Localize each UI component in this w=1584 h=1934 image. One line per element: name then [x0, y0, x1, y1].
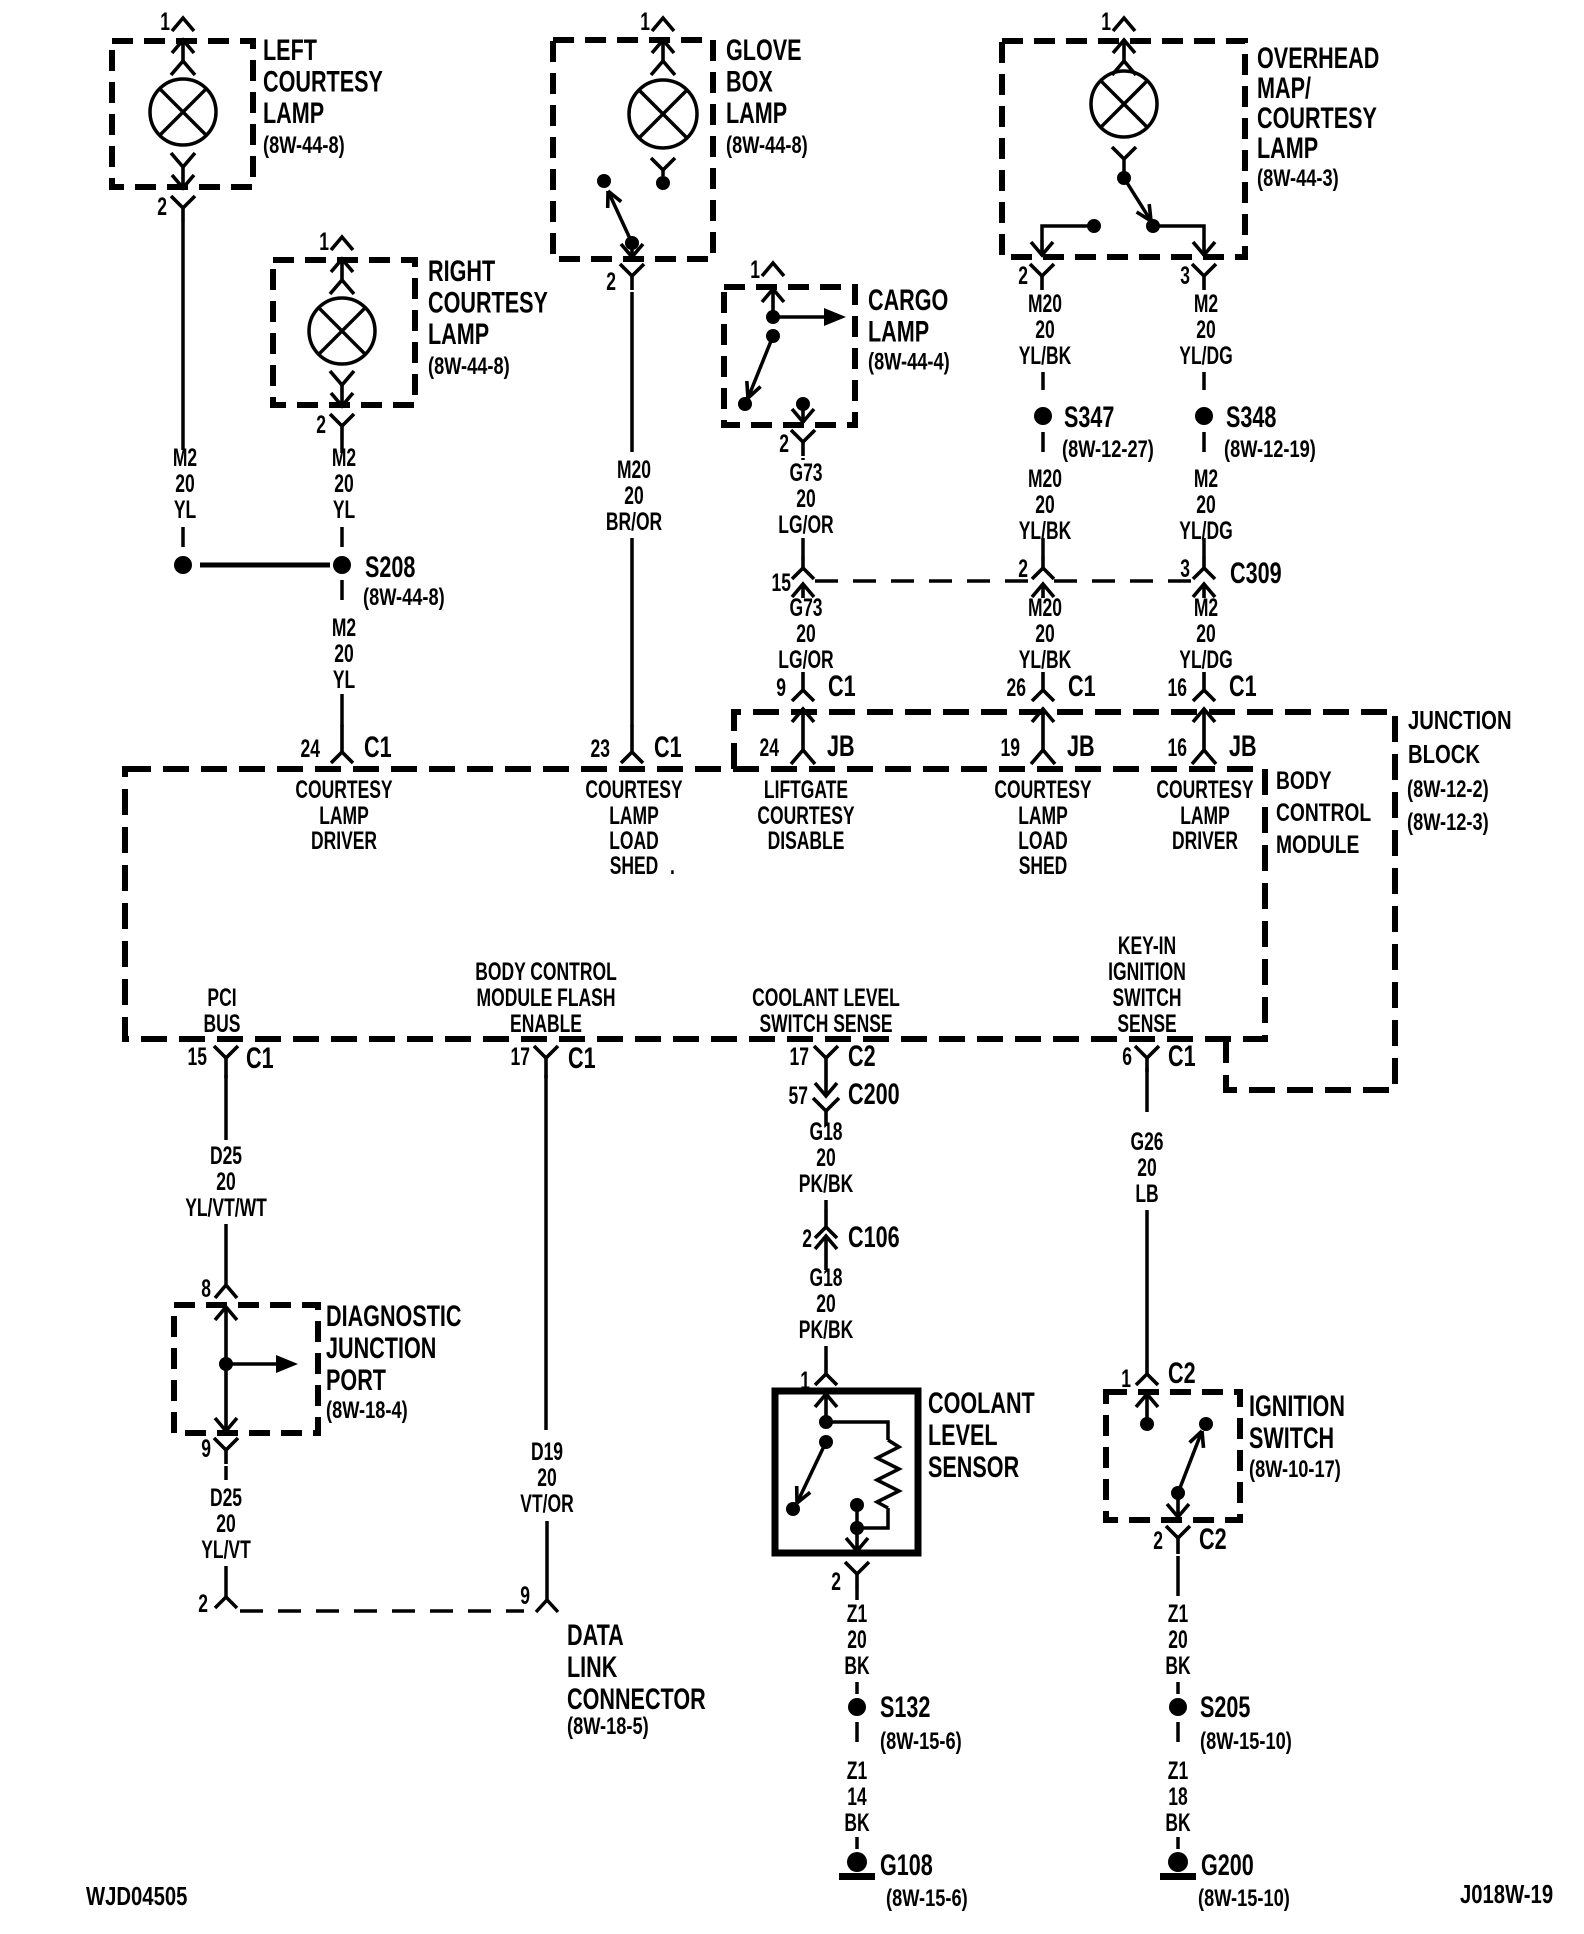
svg-text:2: 2: [198, 1589, 208, 1618]
wire M2 YL/DG below S348: [1202, 432, 1206, 452]
wire dash below S205: [1176, 1722, 1180, 1742]
drawing number J018W-19: [1460, 1880, 1553, 1909]
overhead switch contact pin3: [1146, 219, 1160, 233]
svg-text:COURTESY: COURTESY: [585, 775, 683, 804]
svg-text:PORT: PORT: [326, 1362, 386, 1396]
svg-text:YL: YL: [333, 495, 355, 524]
svg-text:COOLANT LEVEL: COOLANT LEVEL: [752, 983, 900, 1012]
svg-text:20: 20: [1196, 619, 1215, 648]
svg-text:2: 2: [606, 267, 616, 296]
connector 57 C200: [789, 1076, 900, 1126]
diagnostic port node: [219, 1357, 233, 1371]
svg-text:16: 16: [1168, 733, 1187, 762]
svg-text:G18: G18: [809, 1117, 842, 1146]
pin 2 terminal cargo: [792, 404, 814, 423]
splice S208 label: [363, 549, 445, 610]
svg-text:20: 20: [1035, 490, 1054, 519]
wire M20 YL/BK to S347: [1041, 372, 1045, 390]
svg-text:DATA: DATA: [567, 1617, 624, 1651]
pin 1 terminal glove box: [651, 39, 675, 75]
svg-text:C1: C1: [828, 668, 856, 702]
svg-text:(8W-15-6): (8W-15-6): [886, 1885, 968, 1912]
svg-text:M20: M20: [1028, 593, 1062, 622]
connector 9 data link: [520, 1521, 558, 1612]
svg-text:BODY: BODY: [1276, 767, 1332, 795]
overhead wire to pin 3: [1153, 226, 1204, 240]
svg-text:C309: C309: [1230, 555, 1282, 589]
pin 2 overhead connector: [1018, 261, 1054, 290]
wire label M2 20 YL/DG lower: [1179, 593, 1232, 674]
svg-text:C200: C200: [848, 1076, 900, 1110]
svg-text:2: 2: [1018, 554, 1028, 583]
svg-text:20: 20: [847, 1625, 866, 1654]
splice S132: [848, 1698, 866, 1716]
svg-text:BR/OR: BR/OR: [606, 507, 663, 536]
svg-text:SHED: SHED: [1019, 851, 1068, 880]
svg-text:20: 20: [816, 1289, 835, 1318]
svg-text:LAMP: LAMP: [428, 316, 489, 350]
data link connector label: [567, 1617, 706, 1739]
svg-text:17: 17: [511, 1042, 530, 1071]
pin 2 glove box connector: [606, 264, 644, 296]
lamp glove box: [629, 80, 697, 148]
svg-text:2: 2: [316, 410, 326, 439]
wire label G18 20 PK/BK upper: [799, 1117, 854, 1198]
wire M20 YL/BK below S347: [1041, 432, 1045, 452]
glove box lamp label: [726, 32, 808, 158]
svg-text:Z1: Z1: [1168, 1599, 1188, 1628]
svg-text:IGNITION: IGNITION: [1108, 957, 1186, 986]
overhead lamp label: [1257, 40, 1379, 191]
svg-text:1: 1: [750, 255, 760, 284]
pin 2 terminal glove box: [621, 243, 643, 258]
ground G108: [839, 1852, 875, 1880]
svg-text:S208: S208: [365, 549, 415, 583]
ignition switch pivot: [1171, 1486, 1185, 1500]
wire dash above S205: [1176, 1682, 1180, 1694]
pin 1 left courtesy lamp: [160, 7, 194, 36]
cargo lamp arrow to lamp: [773, 308, 846, 326]
wire label Z1 20 BK ignition: [1165, 1599, 1191, 1680]
terminal 16 JB: [1168, 708, 1257, 764]
overhead map courtesy lamp box: [1002, 41, 1245, 257]
glove box lamp contact: [651, 158, 675, 190]
wire label Z1 20 BK coolant: [844, 1599, 870, 1680]
pin 1 terminal left courtesy: [171, 39, 195, 75]
svg-text:JB: JB: [1067, 728, 1095, 762]
wire D25 to diagnostic port: [224, 1224, 228, 1284]
svg-text:9: 9: [520, 1581, 530, 1610]
svg-text:C2: C2: [1199, 1521, 1227, 1555]
coolant sensor node 1: [819, 1415, 833, 1429]
svg-text:C1: C1: [1168, 1038, 1196, 1072]
svg-text:ENABLE: ENABLE: [510, 1009, 582, 1038]
svg-text:COURTESY: COURTESY: [295, 775, 393, 804]
svg-text:16: 16: [1168, 673, 1187, 702]
svg-text:CONNECTOR: CONNECTOR: [567, 1681, 706, 1715]
svg-text:(8W-10-17): (8W-10-17): [1249, 1456, 1341, 1483]
ground G200 label: [1198, 1847, 1290, 1911]
wire label M2 20 YL/DG upper: [1179, 289, 1232, 370]
svg-text:M2: M2: [173, 443, 197, 472]
svg-text:G200: G200: [1201, 1847, 1254, 1881]
svg-text:S348: S348: [1226, 399, 1276, 433]
diagnostic port arrow: [226, 1355, 298, 1373]
svg-text:BLOCK: BLOCK: [1408, 740, 1480, 769]
svg-text:2: 2: [802, 1224, 812, 1253]
ignition switch node 1: [1140, 1417, 1154, 1431]
svg-text:(8W-44-3): (8W-44-3): [1257, 165, 1339, 192]
svg-text:(8W-44-8): (8W-44-8): [428, 353, 510, 380]
terminal 8 diagnostic port: [215, 1307, 237, 1364]
svg-text:1: 1: [1101, 7, 1111, 36]
pin 2 ignition connector: [1153, 1521, 1226, 1555]
svg-text:M20: M20: [1028, 464, 1062, 493]
svg-text:23: 23: [591, 734, 610, 763]
glove box switch arm: [608, 191, 632, 243]
svg-text:MODULE: MODULE: [1276, 831, 1359, 859]
cargo lamp box: [724, 287, 855, 425]
svg-text:15: 15: [772, 568, 791, 597]
splice S347 label: [1062, 399, 1154, 462]
splice S348: [1195, 407, 1213, 425]
svg-text:M2: M2: [1194, 289, 1218, 318]
svg-text:RIGHT: RIGHT: [428, 253, 495, 287]
wire dash above G200: [1176, 1837, 1180, 1849]
svg-text:G73: G73: [789, 593, 822, 622]
svg-text:1: 1: [1121, 1364, 1131, 1393]
left courtesy lamp label: [263, 32, 383, 158]
wire label M2 20 YL: [173, 443, 197, 524]
svg-text:D25: D25: [210, 1483, 242, 1512]
svg-text:D25: D25: [210, 1141, 242, 1170]
svg-text:(8W-44-8): (8W-44-8): [263, 132, 345, 159]
inline connector C309 dashed link: [815, 579, 1193, 583]
svg-text:C1: C1: [1068, 668, 1096, 702]
coolant sensor output node upper: [850, 1498, 864, 1512]
svg-text:(8W-44-8): (8W-44-8): [363, 584, 445, 611]
svg-text:SHED: SHED: [610, 851, 659, 880]
wire label D25 20 YL/VT: [201, 1483, 251, 1564]
svg-text:S205: S205: [1200, 1689, 1250, 1723]
wire label G73 20 LG/OR: [778, 458, 834, 539]
svg-text:(8W-12-27): (8W-12-27): [1062, 436, 1154, 463]
svg-text:JUNCTION: JUNCTION: [1408, 706, 1512, 735]
svg-text:LAMP: LAMP: [726, 95, 787, 129]
svg-text:2: 2: [1018, 261, 1028, 290]
wire G18 mid: [824, 1200, 828, 1209]
svg-text:BK: BK: [1165, 1651, 1191, 1680]
svg-text:2: 2: [1153, 1526, 1163, 1555]
svg-text:BK: BK: [1165, 1808, 1191, 1837]
svg-text:LAMP: LAMP: [263, 95, 324, 129]
ignition switch label: [1249, 1388, 1345, 1482]
connector 16 C1 junction block: [1168, 668, 1257, 702]
pin 1 cargo lamp: [750, 255, 784, 284]
svg-text:D19: D19: [531, 1437, 563, 1466]
svg-text:8: 8: [201, 1274, 211, 1303]
overhead lamp contact: [1112, 147, 1136, 185]
svg-text:C1: C1: [654, 729, 682, 763]
coolant sensor switch arm: [797, 1442, 826, 1503]
svg-text:20: 20: [624, 481, 643, 510]
svg-text:G18: G18: [809, 1263, 842, 1292]
svg-text:JUNCTION: JUNCTION: [326, 1330, 436, 1364]
glove box lamp box: [553, 40, 713, 259]
svg-text:M2: M2: [332, 613, 356, 642]
svg-text:DRIVER: DRIVER: [1172, 826, 1238, 855]
svg-text:Z1: Z1: [1168, 1756, 1188, 1785]
svg-text:(8W-18-4): (8W-18-4): [326, 1397, 408, 1424]
connector 6 C1 key-in: [1122, 1038, 1195, 1072]
svg-text:20: 20: [175, 469, 194, 498]
cargo lamp label: [868, 282, 950, 375]
svg-text:20: 20: [796, 619, 815, 648]
wire Z1 BK coolant: [855, 1590, 859, 1600]
cargo lamp feed node: [766, 310, 780, 324]
splice S205 label: [1200, 1689, 1250, 1723]
wire D19 VT/OR: [544, 1075, 548, 1430]
wire label D19 20 VT/OR: [520, 1437, 574, 1518]
svg-text:SENSE: SENSE: [1117, 1009, 1176, 1038]
svg-text:20: 20: [1196, 490, 1215, 519]
svg-text:19: 19: [1001, 733, 1020, 762]
left courtesy lamp box: [112, 41, 253, 187]
svg-text:MODULE FLASH: MODULE FLASH: [477, 983, 616, 1012]
svg-text:M2: M2: [332, 443, 356, 472]
svg-text:LIFTGATE: LIFTGATE: [764, 775, 848, 804]
svg-text:YL: YL: [333, 665, 355, 694]
connector 23 C1 courtesy lamp load shed: [591, 725, 682, 764]
cargo switch arm: [747, 336, 773, 398]
svg-text:(8W-15-6): (8W-15-6): [880, 1728, 962, 1755]
svg-text:G26: G26: [1130, 1127, 1163, 1156]
svg-text:YL: YL: [174, 495, 196, 524]
svg-text:SWITCH: SWITCH: [1249, 1420, 1334, 1454]
svg-text:2: 2: [779, 429, 789, 458]
svg-text:S132: S132: [880, 1689, 930, 1723]
wire label M2 20 YL lower: [332, 613, 356, 694]
pin 2 terminal left courtesy: [171, 153, 195, 189]
svg-text:DIAGNOSTIC: DIAGNOSTIC: [326, 1298, 462, 1332]
pin function key-in ignition switch sense: [1108, 931, 1186, 1038]
connector 26 C1 junction block: [1007, 668, 1096, 702]
connector 1 C2 ignition: [1121, 1355, 1195, 1392]
connector 17 C1 flash enable: [511, 1040, 596, 1078]
svg-text:LG/OR: LG/OR: [778, 645, 834, 674]
pin 1 overhead lamp: [1101, 7, 1135, 36]
cargo switch node: [766, 329, 780, 343]
svg-text:PCI: PCI: [207, 983, 236, 1012]
svg-text:C2: C2: [1168, 1355, 1196, 1389]
wire label Z1 18 BK: [1165, 1756, 1191, 1837]
cargo pin 2 contact: [796, 397, 810, 411]
svg-text:20: 20: [537, 1463, 556, 1492]
svg-text:C1: C1: [364, 729, 392, 763]
svg-text:1: 1: [319, 227, 329, 256]
coolant level sensor label: [928, 1385, 1035, 1483]
svg-text:GLOVE: GLOVE: [726, 32, 802, 66]
svg-text:20: 20: [1035, 619, 1054, 648]
overhead wire to pin 2: [1042, 226, 1094, 240]
svg-text:17: 17: [790, 1042, 809, 1071]
svg-text:KEY-IN: KEY-IN: [1118, 931, 1176, 960]
svg-text:26: 26: [1007, 673, 1026, 702]
svg-text:YL/BK: YL/BK: [1019, 341, 1072, 370]
pin 2 cargo connector: [779, 429, 815, 458]
svg-text:LAMP: LAMP: [868, 314, 929, 348]
svg-text:(8W-18-5): (8W-18-5): [567, 1713, 649, 1740]
svg-text:(8W-12-2): (8W-12-2): [1407, 776, 1489, 803]
pin 3 overhead connector: [1180, 261, 1216, 290]
svg-text:BOX: BOX: [726, 64, 773, 98]
connector 2 data link: [198, 1585, 237, 1618]
svg-text:J018W-19: J018W-19: [1460, 1880, 1553, 1909]
svg-text:14: 14: [847, 1782, 866, 1811]
svg-text:COURTESY: COURTESY: [428, 285, 548, 319]
svg-text:LEFT: LEFT: [263, 32, 317, 66]
svg-text:CONTROL: CONTROL: [1276, 799, 1371, 827]
wire dash above S132: [855, 1682, 859, 1694]
svg-text:PK/BK: PK/BK: [799, 1315, 854, 1344]
svg-text:YL/DG: YL/DG: [1179, 645, 1232, 674]
pin 2 terminal overhead: [1031, 240, 1053, 256]
svg-text:BUS: BUS: [204, 1009, 241, 1038]
svg-text:20: 20: [1137, 1153, 1156, 1182]
svg-text:9: 9: [201, 1434, 211, 1463]
wire M20 20 BR/OR: [630, 292, 634, 726]
svg-text:(8W-15-10): (8W-15-10): [1200, 1728, 1292, 1755]
right courtesy lamp box: [273, 260, 415, 405]
pin function courtesy lamp driver right: [1156, 775, 1254, 855]
connector 15 C1 pci bus: [188, 1040, 274, 1078]
svg-text:M20: M20: [617, 455, 651, 484]
body control module box: [125, 769, 1265, 1039]
wire label G26 20 LB: [1130, 1127, 1163, 1208]
wire D25 YL/VT: [224, 1466, 228, 1480]
svg-text:LG/OR: LG/OR: [778, 510, 834, 539]
wire label M20 20 BR/OR: [606, 455, 663, 536]
wire D25 to data link: [224, 1566, 228, 1585]
svg-text:(8W-15-10): (8W-15-10): [1198, 1885, 1290, 1912]
svg-text:2: 2: [157, 192, 167, 221]
coolant level sensor box: [775, 1391, 918, 1553]
lamp overhead: [1091, 71, 1157, 137]
svg-text:YL/BK: YL/BK: [1019, 516, 1072, 545]
svg-text:3: 3: [1180, 261, 1190, 290]
drawing number WJD04505: [86, 1882, 187, 1911]
svg-text:(8W-12-3): (8W-12-3): [1407, 809, 1489, 836]
wire label M2 20 YL/DG mid: [1179, 464, 1232, 545]
svg-text:C2: C2: [848, 1038, 876, 1072]
dashed link to data link connector: [240, 1609, 524, 1613]
wire G18 to sensor: [824, 1346, 828, 1360]
wire label G18 20 PK/BK lower: [799, 1263, 854, 1344]
wire label M2 20 YL right: [332, 443, 356, 524]
wire D25 pci upper: [224, 1075, 228, 1140]
svg-text:C1: C1: [568, 1040, 596, 1074]
connector 2 C106: [802, 1209, 899, 1270]
svg-text:M2: M2: [1194, 593, 1218, 622]
svg-text:20: 20: [1168, 1625, 1187, 1654]
svg-text:C106: C106: [848, 1219, 900, 1253]
svg-text:.: .: [670, 851, 675, 880]
overhead switch arm: [1124, 178, 1151, 221]
pin 2 terminal coolant sensor: [846, 1528, 868, 1552]
svg-text:20: 20: [334, 639, 353, 668]
svg-text:18: 18: [1168, 1782, 1187, 1811]
connector 8 diagnostic junction port: [201, 1274, 237, 1303]
splice S205 reference: [1200, 1728, 1292, 1755]
lamp right courtesy: [309, 298, 375, 364]
svg-text:DRIVER: DRIVER: [311, 826, 377, 855]
wire Z1 BK ignition: [1176, 1556, 1180, 1596]
svg-text:COURTESY: COURTESY: [263, 64, 383, 98]
pin function pci bus: [204, 983, 241, 1038]
splice S208: [200, 556, 351, 574]
svg-text:C1: C1: [1229, 668, 1257, 702]
wire label Z1 14 BK: [844, 1756, 870, 1837]
pin 2 terminal right courtesy: [330, 371, 354, 407]
connector 24 C1 courtesy lamp driver: [301, 725, 392, 764]
splice S132 reference: [880, 1728, 962, 1755]
wire label M20 20 YL/BK upper: [1019, 289, 1072, 370]
wire label D25 20 YL/VT/WT: [185, 1141, 267, 1222]
ground G200: [1160, 1852, 1196, 1880]
svg-text:24: 24: [301, 734, 320, 763]
coolant sensor node 2: [819, 1435, 833, 1449]
connector 9 below diagnostic port: [201, 1434, 238, 1464]
pin 3 terminal overhead: [1193, 240, 1215, 256]
svg-text:IGNITION: IGNITION: [1249, 1388, 1345, 1422]
pin function courtesy lamp load shed right: [994, 775, 1092, 880]
svg-text:20: 20: [816, 1143, 835, 1172]
svg-text:20: 20: [1035, 315, 1054, 344]
wire label M20 20 YL/BK lower: [1019, 593, 1072, 674]
svg-text:15: 15: [188, 1042, 207, 1071]
svg-text:20: 20: [216, 1509, 235, 1538]
terminal 24 JB: [760, 708, 855, 764]
wire dash below S132: [855, 1722, 859, 1742]
wire M2 20 YL right courtesy: [340, 440, 344, 547]
connector 3 C309 right: [1180, 538, 1215, 598]
svg-text:COURTESY: COURTESY: [994, 775, 1092, 804]
lamp left courtesy: [150, 79, 216, 145]
splice S132 label: [880, 1689, 930, 1723]
svg-text:VT/OR: VT/OR: [520, 1489, 574, 1518]
wire G73 20 LG/OR lower: [778, 593, 834, 674]
svg-text:1: 1: [160, 7, 170, 36]
svg-text:LINK: LINK: [567, 1649, 617, 1683]
svg-text:2: 2: [831, 1567, 841, 1596]
svg-text:24: 24: [760, 733, 779, 762]
svg-text:COOLANT: COOLANT: [928, 1385, 1035, 1419]
svg-text:G108: G108: [880, 1847, 933, 1881]
svg-text:YL/DG: YL/DG: [1179, 341, 1232, 370]
ignition switch box: [1106, 1392, 1240, 1520]
svg-text:6: 6: [1122, 1042, 1132, 1071]
splice S205: [1169, 1698, 1187, 1716]
svg-text:JB: JB: [1229, 728, 1257, 762]
connector 9 C1 junction block: [776, 668, 855, 702]
junction block label: [1407, 706, 1512, 836]
body control module label: [1276, 767, 1371, 859]
svg-text:Z1: Z1: [847, 1756, 867, 1785]
svg-text:S347: S347: [1064, 399, 1114, 433]
svg-text:SWITCH SENSE: SWITCH SENSE: [759, 1009, 892, 1038]
right courtesy lamp label: [428, 253, 548, 379]
cargo switch throw contact: [738, 397, 752, 411]
